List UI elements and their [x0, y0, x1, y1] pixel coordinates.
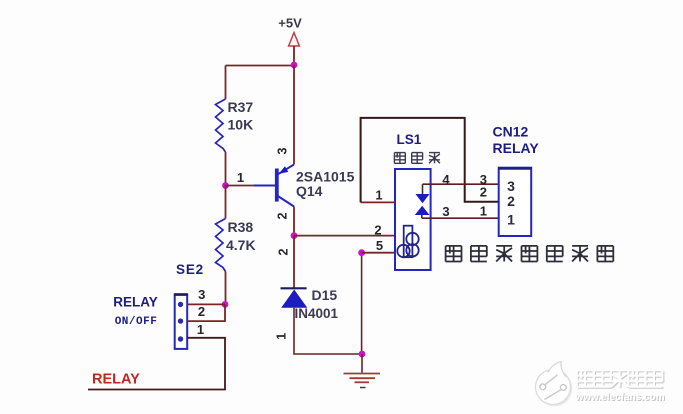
resistor R37: [216, 99, 254, 152]
svg-text:R38: R38: [228, 219, 254, 235]
resistor R38: [216, 219, 256, 272]
svg-text:+5V: +5V: [278, 16, 302, 31]
wire relay pin5 vertical: [361, 253, 363, 354]
wire diode to ground node: [294, 308, 362, 354]
svg-text:D15: D15: [312, 287, 338, 303]
wire R38 bottom: [225, 272, 227, 305]
svg-text:1: 1: [275, 333, 289, 340]
wire SE2 pin3: [187, 303, 225, 305]
relay LS1: [374, 132, 450, 270]
wire collector down: [293, 207, 295, 236]
wire emitter to +5V: [293, 65, 295, 165]
svg-text:ON/OFF: ON/OFF: [115, 316, 158, 328]
svg-text:2: 2: [507, 193, 515, 209]
wire SE2 pin2: [187, 304, 225, 321]
wire collector to diode: [293, 236, 295, 289]
node SE2 pin3 junction: [222, 301, 229, 308]
svg-text:2: 2: [198, 304, 205, 319]
wire collector to relay pin 2: [294, 235, 395, 237]
svg-text:IN4001: IN4001: [295, 306, 339, 321]
svg-text:1: 1: [237, 170, 244, 185]
wire pin5 to relay: [362, 252, 395, 254]
watermark elecfans logo: [536, 362, 573, 407]
svg-text:2: 2: [276, 212, 290, 219]
svg-text:CN12: CN12: [493, 124, 529, 140]
wire R38 top: [225, 186, 227, 219]
svg-text:1: 1: [480, 204, 487, 219]
svg-text:2: 2: [480, 184, 487, 199]
diode D15 IN4001: [281, 287, 339, 321]
node ground junction: [359, 351, 366, 358]
svg-text:3: 3: [442, 204, 449, 219]
watermark 电子发烧友 text: [577, 370, 664, 387]
svg-text:1: 1: [375, 188, 382, 203]
svg-text:www.elecfans.com: www.elecfans.com: [575, 392, 665, 403]
wire R37 top: [225, 66, 227, 100]
connector CN12: [493, 124, 540, 237]
svg-text:LS1: LS1: [397, 132, 422, 147]
wire +5V stub: [293, 46, 295, 65]
wire top horizontal: [226, 65, 295, 67]
svg-text:1: 1: [507, 211, 515, 227]
wire SE2 pin1 to RELAY net: [88, 338, 225, 390]
wire relay pin1: [361, 201, 395, 203]
svg-text:3: 3: [507, 178, 515, 194]
svg-text:1: 1: [197, 322, 204, 337]
node collector junction: [291, 232, 298, 239]
wire base: [226, 185, 259, 187]
svg-text:5: 5: [376, 238, 383, 253]
wire R37 bottom: [225, 152, 227, 186]
svg-text:R37: R37: [228, 99, 254, 115]
transistor Q14 2SA1015: [254, 147, 355, 219]
node pin5 junction: [358, 249, 365, 256]
power +5V symbol: [278, 16, 302, 47]
svg-text:3: 3: [198, 287, 205, 302]
svg-text:2: 2: [277, 248, 291, 255]
svg-text:3: 3: [276, 147, 290, 154]
svg-text:RELAY: RELAY: [493, 140, 540, 156]
wire relay pin3 to CN12 pin1: [422, 217, 499, 219]
svg-text:RELAY: RELAY: [113, 295, 158, 310]
node +5V junction: [291, 62, 298, 69]
svg-text:4.7K: 4.7K: [226, 237, 256, 253]
svg-text:Q14: Q14: [296, 183, 323, 199]
svg-text:10K: 10K: [228, 117, 254, 133]
wire relay pin4 to CN12 pin3: [423, 183, 499, 185]
watermark www.elecfans.com: [575, 392, 666, 404]
wire loop relay pin1 to CN12 pin2: [361, 118, 499, 202]
ground symbol: [344, 354, 381, 388]
svg-text:RELAY: RELAY: [92, 372, 140, 388]
svg-text:2: 2: [374, 222, 381, 237]
connector SE2: [113, 262, 204, 349]
node base junction: [222, 182, 229, 189]
label 继电器外接端子 (relay external terminals): [446, 246, 614, 262]
svg-text:SE2: SE2: [176, 262, 204, 277]
